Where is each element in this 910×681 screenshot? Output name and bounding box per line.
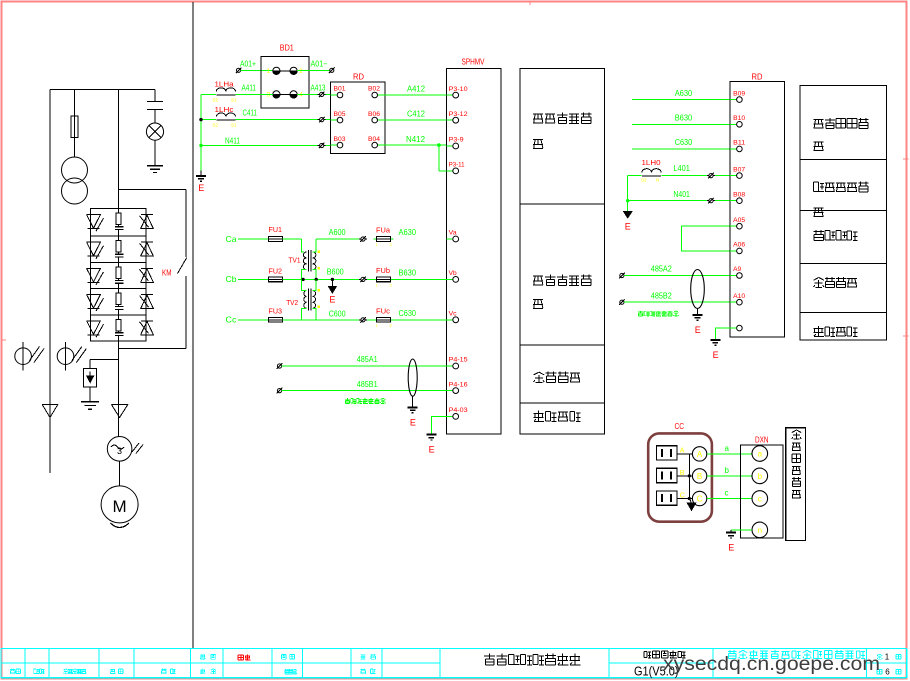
svg-text:485A1: 485A1 xyxy=(357,354,378,364)
svg-text:A06: A06 xyxy=(733,243,746,249)
wire KM bottom xyxy=(119,348,186,350)
contactor KM xyxy=(162,190,187,349)
svg-text:A413: A413 xyxy=(311,83,326,92)
connector A600 xyxy=(359,236,367,242)
CC terminal A xyxy=(692,447,706,461)
svg-text:1: 1 xyxy=(885,653,890,662)
TV1 secondary bottom xyxy=(313,270,318,281)
svg-text:A9: A9 xyxy=(733,267,742,273)
fuse FU2 xyxy=(266,267,286,282)
svg-text:P4-03: P4-03 xyxy=(449,408,469,414)
svg-text:A01+: A01+ xyxy=(240,60,256,69)
svg-text:a: a xyxy=(725,444,730,453)
wire A411 xyxy=(201,83,273,94)
svg-text:TV1: TV1 xyxy=(289,256,301,265)
thyristors and snubbers xyxy=(87,209,154,341)
svg-text:E: E xyxy=(429,445,435,455)
svg-text:E: E xyxy=(329,295,335,305)
label Cb xyxy=(226,274,237,284)
svg-text:c: c xyxy=(758,495,762,504)
RD2 pin A05 xyxy=(730,218,746,229)
svg-text:L401: L401 xyxy=(673,163,690,173)
CC terminal C xyxy=(692,491,706,505)
block SPHMV xyxy=(446,58,501,434)
ground n xyxy=(726,530,736,553)
svg-text:Cb: Cb xyxy=(226,274,237,284)
motor M xyxy=(101,486,138,528)
wire 485A1 xyxy=(282,354,447,366)
svg-text:485B1: 485B1 xyxy=(357,379,378,389)
TV1 marks xyxy=(318,251,320,269)
node CT bus right xyxy=(626,176,629,212)
fuse FUc xyxy=(373,306,393,328)
fuse FU1 xyxy=(266,225,286,241)
wire Ca to TV1 xyxy=(283,239,305,252)
svg-text:Ca: Ca xyxy=(226,234,237,244)
svg-text:A600: A600 xyxy=(329,227,346,237)
terminal 485B2 xyxy=(619,299,625,305)
svg-text:KM: KM xyxy=(162,269,172,278)
SPHMV pin Vb xyxy=(446,271,458,282)
svg-text:N412: N412 xyxy=(406,134,425,144)
wire Cc xyxy=(238,319,269,321)
RD pin B03 xyxy=(331,137,347,148)
TV1 secondary top xyxy=(313,239,359,252)
block RD right xyxy=(730,72,784,337)
terminal 485A1 xyxy=(277,363,283,369)
twisted shield ellipse xyxy=(408,359,417,396)
SPHMV pin P3-11 xyxy=(446,163,465,174)
DXN terminal b xyxy=(752,468,768,484)
title sheets row1 xyxy=(877,653,901,662)
svg-text:B06: B06 xyxy=(368,112,381,118)
svg-text:M: M xyxy=(113,497,127,516)
svg-text:BD1: BD1 xyxy=(280,44,294,53)
surge counter branch xyxy=(90,359,118,368)
svg-text:B630: B630 xyxy=(675,113,693,123)
title company xyxy=(728,650,865,658)
BD1 link bottom xyxy=(280,93,290,95)
title label riqi1 xyxy=(161,669,175,674)
svg-text:B09: B09 xyxy=(733,91,746,97)
svg-text:C630: C630 xyxy=(399,308,417,318)
connector C411 xyxy=(318,117,326,123)
svg-text:E: E xyxy=(625,222,631,232)
wire B630 right xyxy=(632,113,737,125)
wire A413 xyxy=(297,83,331,94)
separator line xyxy=(192,2,194,649)
label Ca xyxy=(226,234,237,244)
connector B600 xyxy=(359,277,367,283)
svg-text:B04: B04 xyxy=(368,137,381,143)
svg-text:B08: B08 xyxy=(733,192,746,198)
TV2 secondary bottom xyxy=(313,308,317,320)
title label biaozhunhua xyxy=(285,669,298,674)
svg-text:S1: S1 xyxy=(231,98,237,103)
CC wiring xyxy=(677,454,692,500)
svg-text:a: a xyxy=(758,450,763,459)
block CC xyxy=(648,422,712,522)
svg-text:6: 6 xyxy=(885,668,890,677)
wire Cb xyxy=(238,278,269,280)
frame tick right a xyxy=(903,158,909,160)
RD2 pin B10 xyxy=(730,116,746,127)
watermark xyxy=(663,653,880,675)
svg-text:RD: RD xyxy=(752,72,763,81)
wire A01- xyxy=(297,60,329,71)
ground E left bus xyxy=(196,171,206,194)
fuse FUa xyxy=(373,226,393,248)
wire A412 xyxy=(385,84,447,96)
connector N401 xyxy=(707,198,715,204)
SPHMV pin P3-12 xyxy=(446,112,468,123)
RD2 pin B09 xyxy=(730,91,746,102)
svg-text:N411: N411 xyxy=(225,136,240,145)
title label biaoji xyxy=(10,669,21,674)
RD pin B04 xyxy=(368,137,385,148)
RD2 pin B08 xyxy=(730,192,746,203)
svg-text:N401: N401 xyxy=(673,189,690,199)
svg-text:FUc: FUc xyxy=(376,306,390,315)
block RD left xyxy=(331,73,385,154)
label device ground right xyxy=(814,326,858,336)
svg-text:A01−: A01− xyxy=(311,60,328,69)
wire 485A2 xyxy=(624,264,737,276)
wire bridge feed right xyxy=(119,189,186,191)
block functions mid xyxy=(520,69,604,434)
svg-text:A10: A10 xyxy=(733,294,746,300)
svg-text:b: b xyxy=(758,472,763,481)
SPHMV pin P3-9 xyxy=(446,138,464,149)
svg-text:1LHa: 1LHa xyxy=(215,80,235,89)
BD1 link top xyxy=(280,70,290,72)
CT 1LH0 xyxy=(641,158,661,182)
svg-text:A05: A05 xyxy=(733,218,746,224)
sensor 3 phase xyxy=(107,437,143,462)
svg-text:S2: S2 xyxy=(213,123,219,128)
label zero seq xyxy=(814,182,869,217)
svg-text:Vc: Vc xyxy=(449,312,457,318)
connector A413 xyxy=(318,92,326,98)
SPHMV pin Vc xyxy=(446,312,458,323)
ground P4-03 xyxy=(426,435,436,455)
wire n xyxy=(731,529,752,531)
svg-text:N: N xyxy=(656,177,659,182)
svg-text:FU3: FU3 xyxy=(269,307,283,316)
wire C411 xyxy=(201,109,331,120)
svg-text:P3-11: P3-11 xyxy=(449,163,466,169)
svg-text:E: E xyxy=(410,417,416,427)
wire 485B1 xyxy=(282,379,447,391)
label comm circuit right xyxy=(814,277,857,287)
RD2 pin A9 xyxy=(730,267,742,278)
title label qianzi xyxy=(110,669,123,674)
CT 1LHc xyxy=(213,105,238,128)
transformer TV2 xyxy=(286,289,315,311)
terminal 485A2 xyxy=(619,273,625,279)
frame tick top xyxy=(529,2,531,6)
svg-text:S2: S2 xyxy=(213,98,219,103)
svg-text:B600: B600 xyxy=(327,267,344,277)
wire Cc bus xyxy=(283,319,447,321)
TV2 primary bottom xyxy=(302,308,307,320)
title label genggai xyxy=(63,669,86,674)
svg-text:B01: B01 xyxy=(334,87,347,93)
svg-text:FU2: FU2 xyxy=(269,267,283,276)
fuse FU main xyxy=(71,90,78,158)
ground CT right xyxy=(624,211,632,231)
fuse FUb xyxy=(373,266,393,288)
label C600 xyxy=(329,308,346,318)
wire bridge to motor xyxy=(118,341,120,437)
arrester arrow left branch xyxy=(42,405,58,418)
thyristor bridge box xyxy=(91,209,146,341)
RD2 pin gnd xyxy=(730,325,742,331)
wire a xyxy=(707,444,752,454)
wire 485B2 xyxy=(624,290,737,302)
twisted shield ellipse right xyxy=(691,270,705,309)
SPHMV pin P4-15 xyxy=(446,358,468,369)
BD1 pin 3 xyxy=(267,91,280,99)
title sheets row2 xyxy=(877,668,901,677)
transformer T1 xyxy=(62,157,88,204)
BD1 pin 4 xyxy=(290,91,303,99)
svg-text:E: E xyxy=(713,350,719,360)
svg-text:P4-16: P4-16 xyxy=(449,382,469,388)
capacitor C1 xyxy=(147,102,163,124)
connector L401 xyxy=(707,173,715,179)
svg-text:TV2: TV2 xyxy=(286,298,298,307)
svg-text:xysecdq.cn.goepe.com: xysecdq.cn.goepe.com xyxy=(663,653,880,675)
terminal 485B1 xyxy=(277,388,283,394)
svg-text:RD: RD xyxy=(353,73,364,82)
svg-text:n: n xyxy=(758,526,762,535)
svg-text:A630: A630 xyxy=(675,88,693,98)
svg-text:B03: B03 xyxy=(334,137,347,143)
svg-text:Cc: Cc xyxy=(226,315,238,325)
RD pin B05 xyxy=(331,112,347,123)
capacitor CCA xyxy=(656,446,684,460)
label switch state xyxy=(814,230,858,240)
wire counter to ground xyxy=(89,387,91,402)
svg-text:c: c xyxy=(725,489,729,498)
svg-text:A411: A411 xyxy=(242,83,257,92)
svg-text:C412: C412 xyxy=(407,109,425,119)
svg-text:B: B xyxy=(697,472,702,481)
wire RD2 gnd xyxy=(715,328,736,339)
wire Cb bus xyxy=(283,278,447,280)
svg-text:C411: C411 xyxy=(243,109,258,118)
title label chushu xyxy=(34,669,45,674)
ground counter xyxy=(81,402,99,410)
svg-text:1LH0: 1LH0 xyxy=(642,158,661,167)
svg-text:C630: C630 xyxy=(675,137,693,147)
svg-text:E: E xyxy=(695,325,701,335)
RD pin B06 xyxy=(368,112,385,123)
wire N411 xyxy=(201,136,331,145)
wire c xyxy=(707,489,752,499)
title table grid xyxy=(1,649,907,678)
block live display xyxy=(786,428,806,541)
svg-text:S2: S2 xyxy=(641,177,647,182)
title name zhanglin xyxy=(238,655,251,661)
capacitor branch wire xyxy=(154,90,156,102)
svg-text:P3-12: P3-12 xyxy=(449,112,469,118)
RD pin B01 xyxy=(331,87,347,98)
DXN terminal n xyxy=(752,522,768,538)
label voltage protect xyxy=(814,118,869,151)
wire to motor xyxy=(119,461,121,486)
svg-text:B02: B02 xyxy=(368,87,381,93)
CC ground arrow xyxy=(687,499,695,511)
arrester arrow middle xyxy=(111,405,127,418)
SPHMV pin P4-03 xyxy=(446,408,468,419)
connector C600 xyxy=(359,317,367,323)
label A600 xyxy=(329,227,346,237)
svg-text:1LHc: 1LHc xyxy=(215,105,234,114)
ground RD2 xyxy=(710,340,720,360)
shield note left xyxy=(345,398,386,403)
label B600 xyxy=(327,267,344,277)
title label gongyi xyxy=(281,654,294,659)
label C630 xyxy=(399,308,417,318)
svg-text:485B2: 485B2 xyxy=(651,290,672,300)
svg-text:FUa: FUa xyxy=(376,226,391,235)
transformer TV1 xyxy=(289,250,316,272)
lamp HL xyxy=(146,123,163,140)
svg-text:A630: A630 xyxy=(399,227,417,237)
TV2 marks xyxy=(318,289,320,308)
svg-text:P3-9: P3-9 xyxy=(449,138,465,144)
TV1 primary bottom xyxy=(301,270,306,281)
wire A01+ xyxy=(241,69,273,71)
svg-text:DXN: DXN xyxy=(755,436,769,445)
wire A630 right xyxy=(632,88,737,100)
fuse FU3 xyxy=(266,307,286,323)
wire top bus xyxy=(50,89,155,91)
svg-text:P3-10: P3-10 xyxy=(449,87,469,93)
wire Ca xyxy=(238,238,269,240)
svg-text:A412: A412 xyxy=(407,84,425,94)
svg-text:S1: S1 xyxy=(231,123,237,128)
title label riqi2 xyxy=(361,669,376,674)
node B600 gnd xyxy=(329,278,337,305)
CT 1LHa xyxy=(213,80,238,103)
frame tick left xyxy=(2,339,7,341)
wire middle branch xyxy=(118,90,120,209)
TV2 primary top xyxy=(302,279,307,290)
wire N401 xyxy=(628,189,737,201)
capacitor CCC xyxy=(656,491,684,505)
surge counter box xyxy=(83,369,96,388)
ground shield right xyxy=(693,309,703,336)
svg-text:C600: C600 xyxy=(329,308,346,318)
arrester FV1 xyxy=(15,342,44,371)
RD2 pin B07 xyxy=(730,167,746,178)
terminal A01- xyxy=(329,68,335,74)
title drawing type xyxy=(644,651,686,658)
title main name xyxy=(484,654,580,665)
node left bus xyxy=(199,94,202,170)
svg-text:B11: B11 xyxy=(733,141,746,147)
capacitor CCB xyxy=(656,468,684,482)
svg-text:485A2: 485A2 xyxy=(651,264,672,274)
title label jiaohe xyxy=(200,669,216,674)
DXN terminal c xyxy=(752,491,768,507)
svg-text:Vb: Vb xyxy=(449,271,458,277)
svg-text:FUb: FUb xyxy=(376,266,390,275)
label comm circuit mid xyxy=(534,372,580,383)
block DXN xyxy=(740,436,783,538)
svg-text:P4-15: P4-15 xyxy=(449,358,469,364)
title drawing no xyxy=(634,665,679,679)
svg-text:B07: B07 xyxy=(733,167,746,173)
title label pizhun xyxy=(361,654,376,659)
svg-text:Va: Va xyxy=(449,231,458,237)
SPHMV pin P4-16 xyxy=(446,382,468,393)
ground shield left xyxy=(408,396,418,427)
svg-text:E: E xyxy=(198,183,204,193)
svg-text:B05: B05 xyxy=(334,112,347,118)
svg-text:SPHMV: SPHMV xyxy=(462,58,486,67)
RD2 pin B11 xyxy=(730,141,746,152)
label current sampling xyxy=(533,113,592,149)
BD1 pin 1 xyxy=(267,67,280,75)
title label sheji xyxy=(200,654,215,659)
label A630 xyxy=(399,227,417,237)
RD2 pin A06 xyxy=(730,243,746,254)
label device ground mid xyxy=(534,411,581,422)
DXN terminal a xyxy=(752,446,768,462)
svg-text:CC: CC xyxy=(675,422,685,431)
wire P4-03 gnd xyxy=(431,416,446,434)
label Cc xyxy=(226,315,238,325)
wire C630 right xyxy=(632,137,737,149)
svg-text:C: C xyxy=(697,495,703,504)
loop A05-A06 xyxy=(682,226,734,251)
ground lamp xyxy=(147,166,163,173)
svg-text:FU1: FU1 xyxy=(269,225,283,234)
SPHMV pin Va xyxy=(446,231,458,242)
svg-text:E: E xyxy=(728,543,734,553)
wire lamp to ground xyxy=(154,140,156,166)
SPHMV pin P3-10 xyxy=(446,87,468,98)
TV2 secondary top xyxy=(313,279,317,290)
arrester FV2 xyxy=(57,342,86,371)
node N412 xyxy=(437,143,446,171)
svg-text:b: b xyxy=(725,466,730,475)
wire C412 xyxy=(385,109,447,121)
block functions right xyxy=(800,85,886,340)
block BD1 xyxy=(261,44,309,109)
label voltage sampling xyxy=(533,275,592,309)
label B630 xyxy=(399,268,417,278)
CC terminal B xyxy=(692,469,706,483)
RD2 pin A10 xyxy=(730,294,746,305)
shield note right xyxy=(638,311,679,316)
wire L401 xyxy=(628,163,737,176)
svg-text:B630: B630 xyxy=(399,268,417,278)
svg-text:B10: B10 xyxy=(733,116,746,122)
frame tick right b xyxy=(903,335,909,337)
RD pin B02 xyxy=(368,87,385,98)
terminal A01+ xyxy=(236,60,257,74)
wire b xyxy=(707,466,752,476)
wire left branch xyxy=(49,90,51,474)
connector N411 xyxy=(318,143,326,149)
label live display xyxy=(792,430,801,498)
svg-text:A: A xyxy=(697,450,703,459)
